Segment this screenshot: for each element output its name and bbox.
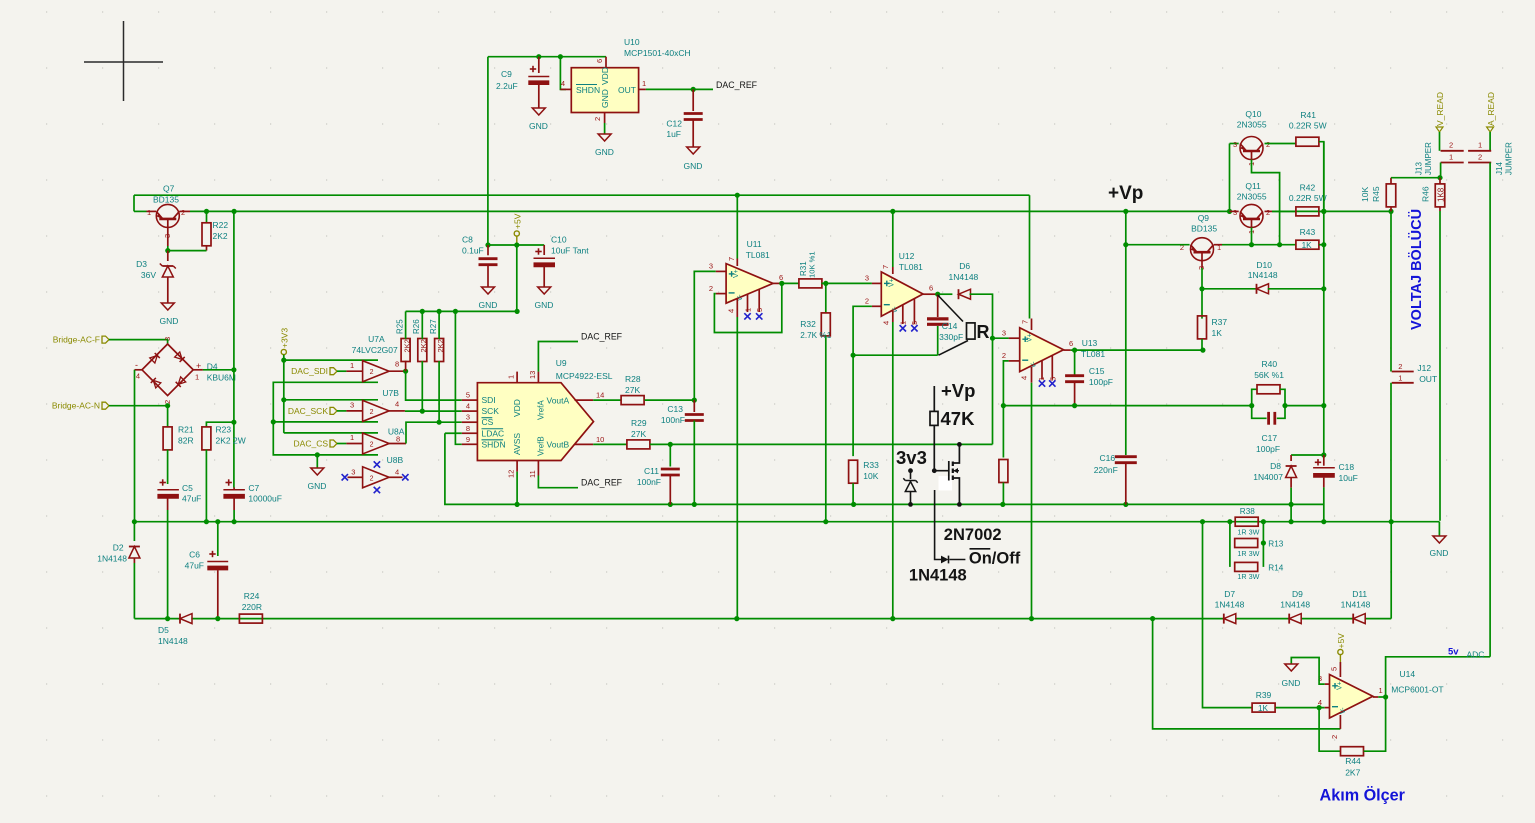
svg-text:74LVC2G07: 74LVC2G07 xyxy=(352,345,398,355)
svg-text:C5: C5 xyxy=(182,483,193,493)
svg-text:3: 3 xyxy=(163,337,172,341)
svg-text:VrefB: VrefB xyxy=(537,436,546,456)
junction R37 U13 out xyxy=(1200,348,1205,353)
svg-text:3: 3 xyxy=(1002,329,1006,338)
svg-text:1N4148: 1N4148 xyxy=(949,272,979,282)
svg-text:4: 4 xyxy=(561,79,565,88)
resistor R37 xyxy=(1201,289,1203,319)
power +3V3 symbol xyxy=(281,349,286,354)
pins U11 1 5 with X xyxy=(747,294,749,312)
wire U7A bottom rail xyxy=(273,382,378,455)
capacitor C8 xyxy=(487,245,489,255)
power +5V U14 xyxy=(1338,649,1343,654)
buffer U7B xyxy=(337,410,346,412)
svg-text:C10: C10 xyxy=(551,235,567,245)
svg-text:VDD: VDD xyxy=(600,67,610,85)
svg-text:D7: D7 xyxy=(1224,589,1235,599)
svg-text:R: R xyxy=(977,322,990,342)
wire U7A out to SDI xyxy=(389,370,406,372)
svg-text:MCP1501-40xCH: MCP1501-40xCH xyxy=(624,48,691,58)
wire +Vp line2 left xyxy=(133,195,135,211)
svg-text:8: 8 xyxy=(396,435,400,444)
capacitor C5 xyxy=(160,482,166,484)
resistor R31 xyxy=(782,282,800,284)
svg-text:JUMPER: JUMPER xyxy=(1424,142,1433,175)
wire bridge plus to column xyxy=(203,369,234,371)
ground below D3 xyxy=(161,303,174,310)
svg-text:Q9: Q9 xyxy=(1198,213,1210,223)
wire 3V3 column xyxy=(283,355,285,433)
no-connect X marks U8B xyxy=(342,474,348,480)
svg-text:1N4148: 1N4148 xyxy=(158,636,188,646)
svg-text:2K2: 2K2 xyxy=(436,339,445,352)
svg-text:D9: D9 xyxy=(1292,589,1303,599)
svg-text:1N4148: 1N4148 xyxy=(1341,600,1371,610)
junction dots AVSS rail xyxy=(515,502,520,507)
svg-text:ADC: ADC xyxy=(1467,650,1485,660)
wire x1324 column xyxy=(1323,142,1325,455)
svg-text:3v3: 3v3 xyxy=(896,447,927,468)
svg-text:14: 14 xyxy=(596,391,604,400)
svg-text:330pF: 330pF xyxy=(939,332,963,342)
wire 5V node xyxy=(488,244,544,246)
svg-text:1K: 1K xyxy=(1212,328,1223,338)
svg-text:0.22R 5W: 0.22R 5W xyxy=(1289,121,1327,131)
svg-text:2: 2 xyxy=(370,409,374,416)
svg-text:GND: GND xyxy=(535,300,554,310)
black annotation resistor R xyxy=(938,295,963,322)
svg-text:1: 1 xyxy=(1379,686,1383,695)
wire R39 feed xyxy=(1203,522,1252,708)
svg-text:13: 13 xyxy=(528,371,537,379)
pin U11 V- down xyxy=(736,298,738,317)
svg-text:GND: GND xyxy=(600,89,610,108)
svg-text:U12: U12 xyxy=(899,251,915,261)
svg-text:C17: C17 xyxy=(1262,433,1278,443)
resistor R43 xyxy=(1296,240,1319,249)
svg-text:2K7: 2K7 xyxy=(1345,768,1360,778)
svg-text:47uF: 47uF xyxy=(182,494,201,504)
svg-text:SDI: SDI xyxy=(482,395,496,405)
wire U7B out to SCK xyxy=(389,410,405,412)
svg-text:1N4148: 1N4148 xyxy=(909,567,967,585)
svg-text:2N3055: 2N3055 xyxy=(1237,120,1267,130)
wire D5 R24 line xyxy=(134,618,179,620)
wire Q9 collector to R43 line xyxy=(1214,244,1222,246)
svg-text:D10: D10 xyxy=(1256,260,1272,270)
svg-text:V+: V+ xyxy=(1337,681,1344,690)
svg-text:3: 3 xyxy=(350,401,354,410)
capacitor C15 xyxy=(1074,350,1076,374)
svg-text:R45: R45 xyxy=(1371,186,1381,202)
svg-text:R33: R33 xyxy=(863,460,879,470)
capacitor C6 xyxy=(217,522,219,556)
svg-text:220R: 220R xyxy=(242,602,262,612)
wire ADC line xyxy=(1386,657,1491,697)
svg-text:8: 8 xyxy=(395,360,399,369)
wire U13 minus loop xyxy=(1003,361,1008,406)
svg-text:Bridge-AC-N: Bridge-AC-N xyxy=(52,401,100,411)
transistor Q7 xyxy=(147,210,157,212)
svg-text:TL081: TL081 xyxy=(899,262,923,272)
pin U9 VoutB xyxy=(575,443,594,445)
svg-text:R43: R43 xyxy=(1300,227,1316,237)
svg-text:A_READ: A_READ xyxy=(1486,92,1496,126)
svg-text:R27: R27 xyxy=(429,319,438,334)
svg-text:0.22R 5W: 0.22R 5W xyxy=(1289,193,1327,203)
svg-text:3: 3 xyxy=(709,262,713,271)
svg-text:U11: U11 xyxy=(747,239,762,249)
resistor R23 xyxy=(206,422,234,427)
wire U8A out to CS xyxy=(389,443,406,445)
svg-text:4: 4 xyxy=(1318,698,1322,707)
capacitor C7 xyxy=(226,482,232,484)
svg-text:3: 3 xyxy=(466,413,470,422)
svg-text:C7: C7 xyxy=(248,483,259,493)
wire feedback line y405 xyxy=(1003,405,1251,407)
pin U13 V- down xyxy=(1031,367,1033,383)
buffer U8B unused xyxy=(363,467,390,488)
wire U12 feedback bottom xyxy=(853,354,938,356)
junction dots line1/line2 xyxy=(735,193,740,198)
wire U12 minus to R33 xyxy=(853,306,872,456)
transistor 2N7002 annotation xyxy=(932,468,937,473)
svg-text:V+: V+ xyxy=(1027,333,1034,342)
wire LDAC stub xyxy=(445,432,462,434)
ground U14 xyxy=(1285,664,1298,671)
wire Q10 emitter jog xyxy=(1252,160,1280,245)
svg-text:5v: 5v xyxy=(1448,647,1459,658)
pin U11 V+ xyxy=(736,195,738,258)
svg-text:10000uF: 10000uF xyxy=(248,494,282,504)
svg-text:+5V: +5V xyxy=(512,213,522,229)
svg-text:1N4148: 1N4148 xyxy=(1248,270,1278,280)
ground bus right xyxy=(1438,522,1440,536)
wire U13 output xyxy=(1064,349,1071,351)
wire VrefA to DAC_REF xyxy=(538,342,578,372)
wire U14 feedback R44 xyxy=(1319,708,1340,752)
svg-text:6: 6 xyxy=(595,59,604,63)
svg-text:Q10: Q10 xyxy=(1245,109,1261,119)
svg-text:U7B: U7B xyxy=(382,388,399,398)
wire SHDN jog xyxy=(560,57,566,90)
svg-text:D3: D3 xyxy=(136,259,147,269)
wire U14 Vminus loop xyxy=(1153,619,1341,729)
buffer U7A xyxy=(337,370,346,372)
svg-text:R14: R14 xyxy=(1268,563,1283,572)
svg-text:U7A: U7A xyxy=(368,334,385,344)
connector J12 OUT xyxy=(1392,371,1414,373)
svg-text:GND: GND xyxy=(684,161,703,171)
svg-text:1: 1 xyxy=(147,208,151,217)
pin U12 V+ xyxy=(892,211,894,267)
svg-text:V+: V+ xyxy=(733,269,740,278)
wire J12 col to D11 corner xyxy=(1390,522,1392,619)
svg-text:1N4007: 1N4007 xyxy=(1253,472,1283,482)
wire Q10 collector to R41 xyxy=(1265,143,1297,145)
svg-text:V_READ: V_READ xyxy=(1435,92,1445,126)
svg-text:3: 3 xyxy=(865,274,869,283)
ground below buffers xyxy=(316,455,318,468)
wire Q7 emitter xyxy=(167,227,169,246)
svg-text:100nF: 100nF xyxy=(637,477,661,487)
svg-text:1uF: 1uF xyxy=(666,129,681,139)
junction R31 R32 xyxy=(823,281,828,286)
svg-text:R26: R26 xyxy=(412,319,421,334)
ground below C10 xyxy=(538,287,551,294)
wire U10 supply top xyxy=(488,56,606,58)
svg-text:10uF Tant: 10uF Tant xyxy=(551,246,589,256)
capacitor C13 xyxy=(693,400,695,412)
main bottom bus xyxy=(134,521,1439,523)
svg-text:GND: GND xyxy=(595,147,614,157)
svg-text:R39: R39 xyxy=(1256,690,1272,700)
svg-text:SHDN: SHDN xyxy=(482,439,506,449)
svg-text:GND: GND xyxy=(529,121,548,131)
capacitor C17 xyxy=(1252,406,1267,419)
svg-text:C8: C8 xyxy=(462,235,473,245)
svg-text:CS: CS xyxy=(482,417,494,427)
svg-text:10K: 10K xyxy=(863,471,878,481)
wire C13 column to U11 +in xyxy=(694,271,716,400)
diode D9 xyxy=(1289,614,1301,624)
svg-text:D2: D2 xyxy=(113,543,124,553)
transistor Q9 BD135 xyxy=(1191,238,1214,261)
wire U7B bottom rail xyxy=(273,421,378,423)
svg-text:220nF: 220nF xyxy=(1094,465,1118,475)
transistor Q11 2N3055 xyxy=(1240,204,1263,227)
pin U14 V- stub xyxy=(1339,715,1341,729)
svg-text:2.2uF: 2.2uF xyxy=(496,81,518,91)
svg-text:C12: C12 xyxy=(666,119,682,129)
svg-text:R40: R40 xyxy=(1262,359,1278,369)
svg-text:7: 7 xyxy=(1021,320,1030,324)
junction GND buffers xyxy=(315,452,320,457)
pins U12 1 5 with X xyxy=(902,305,904,324)
resistor R32 xyxy=(825,283,827,313)
svg-text:D6: D6 xyxy=(959,261,970,271)
svg-text:100pF: 100pF xyxy=(1256,444,1280,454)
svg-text:2: 2 xyxy=(1449,141,1453,150)
resistor R33 xyxy=(849,460,858,483)
svg-text:D5: D5 xyxy=(158,625,169,635)
wire VrefB to DAC_REF xyxy=(538,476,578,488)
svg-text:2: 2 xyxy=(181,208,185,217)
IC U9 MCP4922-ESL xyxy=(477,383,593,461)
wire U8A top rail xyxy=(284,432,378,434)
capacitor C10 tantalum xyxy=(543,245,545,255)
svg-text:1: 1 xyxy=(642,79,646,88)
svg-text:D11: D11 xyxy=(1352,589,1367,599)
svg-text:DAC_CS: DAC_CS xyxy=(294,439,329,449)
svg-text:4: 4 xyxy=(395,468,399,477)
svg-text:4: 4 xyxy=(395,399,399,408)
svg-text:U14: U14 xyxy=(1400,669,1416,679)
wire AVSS rail xyxy=(445,433,1324,504)
svg-text:GND: GND xyxy=(160,316,179,326)
wire U11 feedback loop xyxy=(714,283,781,332)
svg-text:27K: 27K xyxy=(631,429,646,439)
svg-text:V+: V+ xyxy=(889,278,896,287)
junction dots bus right xyxy=(1200,519,1205,524)
resistor R34 unlabeled xyxy=(1002,406,1004,458)
capacitor C11 xyxy=(669,444,671,466)
svg-text:1R 3W: 1R 3W xyxy=(1237,549,1259,558)
svg-text:J14: J14 xyxy=(1495,162,1504,175)
svg-text:2.7K %1: 2.7K %1 xyxy=(800,331,831,340)
wire 5V rail down xyxy=(516,245,518,311)
junction U13 +in tap xyxy=(990,336,995,341)
svg-text:27K: 27K xyxy=(625,385,640,395)
svg-text:3: 3 xyxy=(1233,140,1237,149)
svg-text:2: 2 xyxy=(1478,153,1482,162)
diode D7 xyxy=(1224,614,1236,624)
wire U12 output xyxy=(923,293,938,295)
svg-text:2: 2 xyxy=(1266,140,1270,149)
svg-text:C6: C6 xyxy=(189,550,200,560)
svg-text:R32: R32 xyxy=(800,319,816,329)
svg-text:V-: V- xyxy=(1031,361,1038,368)
svg-text:R21: R21 xyxy=(178,425,194,435)
wire VoutB line xyxy=(650,443,993,445)
ground below C8 xyxy=(482,287,495,294)
resistor R39 xyxy=(1252,703,1275,712)
junction dots D5 line xyxy=(165,616,170,621)
svg-text:C13: C13 xyxy=(667,404,683,414)
svg-text:VoutB: VoutB xyxy=(547,440,570,450)
svg-text:56K %1: 56K %1 xyxy=(1254,370,1284,380)
resistor R40 parallel C17 xyxy=(1252,389,1257,405)
junction R28 C13 xyxy=(692,398,697,403)
svg-text:1K8: 1K8 xyxy=(1436,187,1445,202)
svg-text:D8: D8 xyxy=(1270,461,1281,471)
junction bridge bottom xyxy=(165,403,170,408)
svg-text:Q7: Q7 xyxy=(163,184,175,194)
svg-text:82R: 82R xyxy=(178,436,194,446)
svg-text:GND: GND xyxy=(479,300,498,310)
svg-text:C11: C11 xyxy=(644,466,659,476)
junction R40 left xyxy=(1249,403,1254,408)
wire 5V pullup rail xyxy=(406,310,517,312)
svg-text:VDD: VDD xyxy=(512,399,522,417)
svg-text:GND: GND xyxy=(1282,678,1301,688)
zener D3 xyxy=(167,251,169,261)
ground below U10 xyxy=(598,134,611,141)
wire Q11 collector to R42 xyxy=(1265,210,1273,212)
svg-text:1K: 1K xyxy=(1258,704,1269,713)
resistor R22 xyxy=(206,211,208,223)
svg-text:11: 11 xyxy=(528,470,537,478)
resistor R13 parallel xyxy=(1229,522,1231,543)
svg-text:TL081: TL081 xyxy=(746,250,770,260)
wire U7A top rail xyxy=(284,359,378,361)
svg-text:GND: GND xyxy=(1430,548,1449,558)
wire J13 pin1 down xyxy=(1440,163,1442,178)
svg-text:KBU6M: KBU6M xyxy=(207,373,236,383)
svg-text:1: 1 xyxy=(195,373,199,382)
pin U9 VrefB xyxy=(537,461,539,476)
svg-text:J12: J12 xyxy=(1417,363,1431,373)
buffer U8A xyxy=(337,443,346,445)
svg-text:2: 2 xyxy=(370,369,374,376)
capacitor C12 xyxy=(692,89,694,111)
svg-text:7: 7 xyxy=(727,257,736,261)
svg-text:1: 1 xyxy=(1478,141,1482,150)
svg-text:R22: R22 xyxy=(213,220,229,230)
resistor R46 xyxy=(1439,178,1441,185)
svg-text:4: 4 xyxy=(727,309,736,313)
svg-text:V-: V- xyxy=(1340,707,1347,714)
svg-text:R38: R38 xyxy=(1240,507,1255,516)
svg-text:2: 2 xyxy=(709,284,713,293)
svg-text:8: 8 xyxy=(466,424,470,433)
junction U12 feedback xyxy=(851,353,856,358)
svg-text:1R 3W: 1R 3W xyxy=(1237,572,1259,581)
wire J12 pin2 from +Vp divider xyxy=(1390,211,1392,371)
pin U10 VDD xyxy=(605,57,607,68)
resistor R24 xyxy=(239,614,262,623)
IC U10 MCP1501 xyxy=(560,88,571,90)
svg-text:R37: R37 xyxy=(1212,317,1228,327)
svg-text:1: 1 xyxy=(507,375,516,379)
svg-text:4: 4 xyxy=(466,402,470,411)
svg-text:10K: 10K xyxy=(1360,187,1370,202)
op-amp U14 MCP6001 xyxy=(1330,675,1373,719)
svg-text:2N7002: 2N7002 xyxy=(944,526,1002,544)
resistor R41 xyxy=(1296,137,1319,146)
connector J14 jumper xyxy=(1468,150,1491,152)
svg-text:+Vp: +Vp xyxy=(1108,183,1143,204)
resistor R38 xyxy=(1235,517,1258,526)
junction Q7 emitter node xyxy=(165,248,170,253)
svg-text:1: 1 xyxy=(1398,373,1402,382)
svg-text:1: 1 xyxy=(1449,153,1453,162)
wire bridge minus column xyxy=(134,370,136,522)
svg-text:2N3055: 2N3055 xyxy=(1237,192,1267,202)
svg-text:2: 2 xyxy=(865,297,869,306)
svg-text:LDAC: LDAC xyxy=(482,428,505,438)
svg-text:Q11: Q11 xyxy=(1245,181,1261,191)
svg-text:U9: U9 xyxy=(556,358,567,368)
resistor R29 xyxy=(593,443,627,445)
svg-text:C9: C9 xyxy=(501,69,512,79)
transistor Q10 2N3055 xyxy=(1230,143,1239,145)
svg-text:U10: U10 xyxy=(624,37,640,47)
svg-text:R41: R41 xyxy=(1300,110,1316,120)
svg-text:C15: C15 xyxy=(1089,366,1105,376)
svg-text:2: 2 xyxy=(593,117,602,121)
wire SHDN pullup xyxy=(455,311,461,444)
svg-text:R29: R29 xyxy=(631,418,647,428)
origin crosshair xyxy=(84,61,163,63)
pin U9 VrefA xyxy=(537,372,539,383)
svg-text:GND: GND xyxy=(308,481,327,491)
wire J12 pin1 down xyxy=(1390,383,1392,521)
resistor R42 xyxy=(1296,207,1319,216)
svg-text:OUT: OUT xyxy=(618,85,636,95)
svg-text:VoutA: VoutA xyxy=(547,395,570,405)
svg-text:1: 1 xyxy=(350,361,354,370)
svg-text:U8B: U8B xyxy=(387,455,404,465)
svg-text:VrefA: VrefA xyxy=(537,400,546,420)
wire Q11 emitter xyxy=(1251,227,1253,244)
svg-text:2K2: 2K2 xyxy=(403,339,412,352)
svg-text:J13: J13 xyxy=(1415,162,1424,175)
wire +Vp top line1 xyxy=(134,194,1030,196)
svg-text:C14: C14 xyxy=(942,321,958,331)
svg-text:DAC_REF: DAC_REF xyxy=(581,332,623,342)
svg-text:1R 3W: 1R 3W xyxy=(1237,528,1259,537)
